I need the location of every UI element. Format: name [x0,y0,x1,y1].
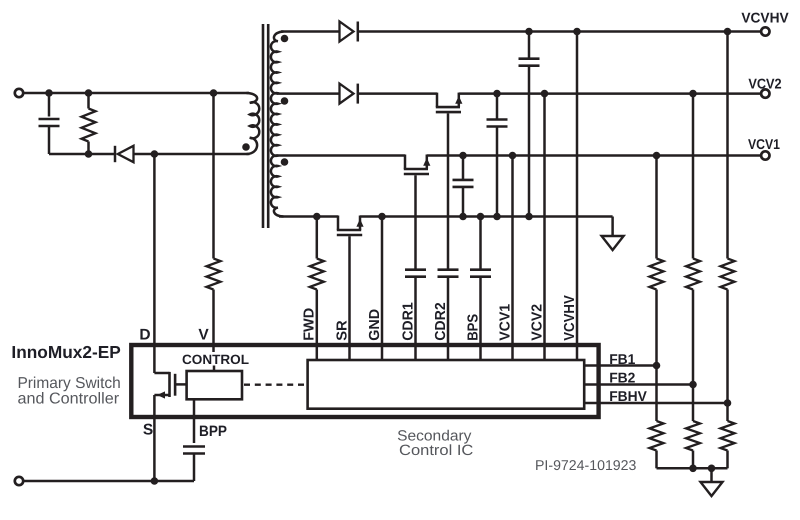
svg-text:FB1: FB1 [609,352,635,368]
svg-text:BPP: BPP [199,423,227,440]
svg-text:Primary Switch: Primary Switch [17,375,120,392]
svg-text:FBHV: FBHV [609,389,647,405]
svg-text:D: D [139,327,150,344]
svg-text:FB2: FB2 [609,371,635,387]
svg-text:VCV2: VCV2 [529,304,545,341]
svg-text:CONTROL: CONTROL [182,352,249,367]
svg-text:V: V [198,327,209,344]
svg-text:GND: GND [367,309,383,341]
svg-text:CDR2: CDR2 [433,302,449,341]
svg-text:BPS: BPS [465,314,481,341]
svg-text:VCV2: VCV2 [748,76,781,92]
svg-text:CDR1: CDR1 [400,302,416,341]
svg-text:PI-9724-101923: PI-9724-101923 [535,458,637,474]
svg-text:and Controller: and Controller [18,390,120,407]
svg-text:S: S [143,422,153,439]
svg-text:SR: SR [334,320,350,341]
svg-text:FWD: FWD [302,308,318,341]
svg-text:VCVHV: VCVHV [562,295,578,341]
svg-text:VCV1: VCV1 [497,304,513,341]
svg-text:Control IC: Control IC [399,443,474,459]
svg-text:Secondary: Secondary [397,428,472,444]
svg-text:VCVHV: VCVHV [741,11,789,27]
svg-text:VCV1: VCV1 [748,137,780,153]
svg-text:InnoMux2-EP: InnoMux2-EP [11,342,120,362]
